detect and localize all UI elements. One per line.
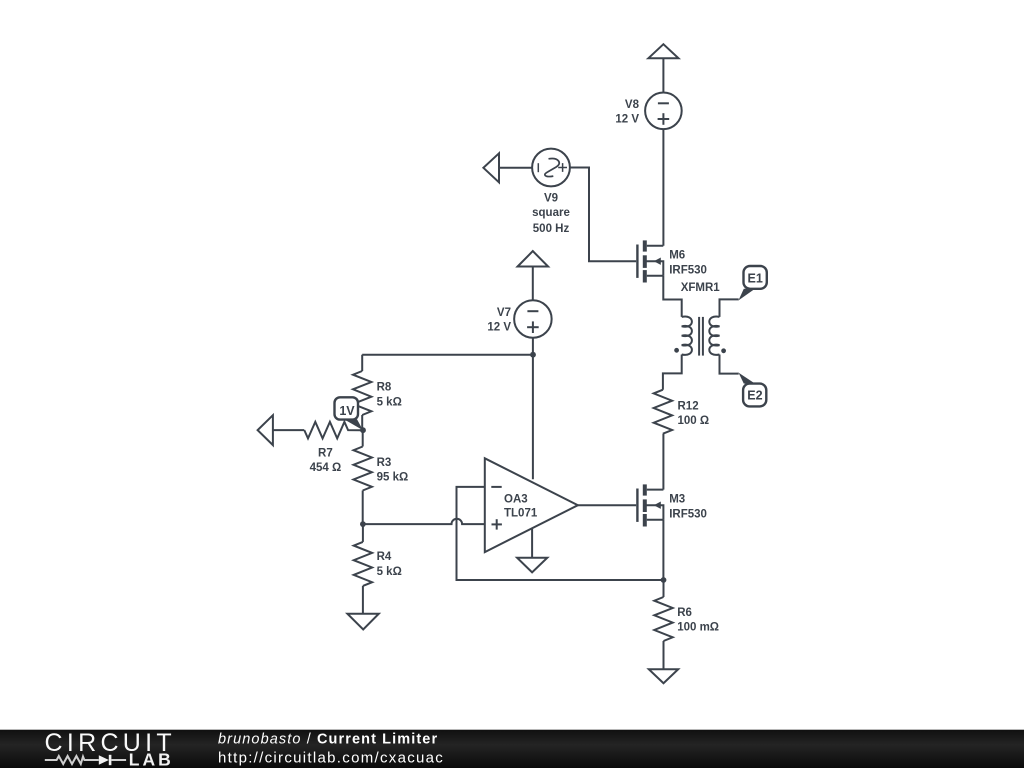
svg-text:12 V: 12 V <box>615 113 639 125</box>
svg-text:454 Ω: 454 Ω <box>310 462 342 474</box>
svg-text:V8: V8 <box>625 99 640 111</box>
wire M3 drain up to R12 <box>662 434 664 490</box>
junction node V7/R8 <box>530 352 536 358</box>
svg-text:M3: M3 <box>669 493 685 505</box>
ground (below R6) <box>649 669 678 683</box>
svg-text:500 Hz: 500 Hz <box>533 223 570 235</box>
svg-text:XFMR1: XFMR1 <box>681 282 721 294</box>
wire V7 to op-amp <box>532 338 534 479</box>
footer bar <box>0 730 1024 768</box>
terminal E1 <box>739 266 767 300</box>
power flag (V7 supply) <box>518 251 549 266</box>
wire <box>532 267 534 301</box>
resistor R8 <box>353 355 371 431</box>
junction node <box>360 427 366 433</box>
op-amp OA3 <box>485 458 578 552</box>
wire secondary bottom to E2 <box>720 355 739 374</box>
wire secondary top to E1 <box>720 299 739 317</box>
primary dot <box>674 348 679 353</box>
svg-text:square: square <box>532 207 570 219</box>
wire <box>662 58 664 92</box>
resistor R7 <box>304 422 363 439</box>
svg-text:M6: M6 <box>669 249 685 261</box>
svg-text:R8: R8 <box>377 381 392 393</box>
junction node <box>360 521 366 527</box>
junction node <box>661 577 667 583</box>
voltage source V8 <box>645 93 682 130</box>
ground (below R4) <box>347 614 378 630</box>
transistor M3 <box>637 484 663 526</box>
svg-text:E2: E2 <box>747 389 762 403</box>
wire <box>273 429 304 431</box>
svg-text:IRF530: IRF530 <box>669 508 707 520</box>
svg-text:LAB: LAB <box>129 749 174 768</box>
wire to op-amp + with hop <box>363 519 485 524</box>
svg-text:R6: R6 <box>677 607 692 619</box>
wire op-amp output <box>578 504 636 506</box>
svg-text:R3: R3 <box>377 457 392 469</box>
svg-text:V9: V9 <box>544 193 558 205</box>
svg-text:5 kΩ: 5 kΩ <box>377 396 402 408</box>
transformer core <box>699 317 703 356</box>
logo resistor-diode symbol <box>45 755 126 765</box>
input flag (V9) <box>483 153 499 182</box>
svg-text:1V: 1V <box>339 404 355 418</box>
wire op-amp minus feedback <box>457 487 664 580</box>
wire M3 source down <box>662 520 664 580</box>
voltage source V7 <box>514 300 552 338</box>
wire <box>570 168 636 262</box>
voltage source V9 (square wave) <box>532 149 570 187</box>
svg-text:http://circuitlab.com/cxacuac: http://circuitlab.com/cxacuac <box>218 749 444 766</box>
transformer XFMR1 primary coil <box>682 316 692 354</box>
transistor M6 <box>637 240 663 282</box>
secondary dot <box>721 348 726 353</box>
resistor R6 <box>654 580 672 669</box>
wire R8 top rail <box>362 354 533 356</box>
svg-text:R4: R4 <box>377 551 392 563</box>
terminal E2 <box>739 373 767 407</box>
ground (below op-amp) <box>517 528 547 572</box>
svg-text:95 kΩ: 95 kΩ <box>377 471 409 483</box>
svg-text:OA3: OA3 <box>504 493 528 505</box>
svg-text:TL071: TL071 <box>504 508 538 520</box>
svg-text:R12: R12 <box>678 400 699 412</box>
svg-text:100 Ω: 100 Ω <box>678 415 710 427</box>
resistor R3 <box>354 430 372 524</box>
node 1V flag <box>335 397 364 430</box>
wire primary bottom to R12 <box>663 355 682 390</box>
wire M6 source to transformer <box>663 276 681 317</box>
svg-text:5 kΩ: 5 kΩ <box>377 566 402 578</box>
svg-text:V7: V7 <box>497 307 511 319</box>
input flag (R7) <box>258 415 273 445</box>
svg-text:IRF530: IRF530 <box>669 264 707 276</box>
svg-text:12 V: 12 V <box>487 322 511 334</box>
transformer secondary coil <box>709 316 719 354</box>
svg-text:R7: R7 <box>318 447 333 459</box>
wire <box>662 129 664 246</box>
resistor R12 <box>654 390 672 434</box>
power flag (V8 supply) <box>648 44 678 58</box>
svg-text:E1: E1 <box>748 271 763 285</box>
svg-text:100 mΩ: 100 mΩ <box>677 621 719 633</box>
resistor R4 <box>354 524 372 614</box>
svg-text:brunobasto / Current Limiter: brunobasto / Current Limiter <box>218 732 438 748</box>
wire <box>499 167 532 169</box>
